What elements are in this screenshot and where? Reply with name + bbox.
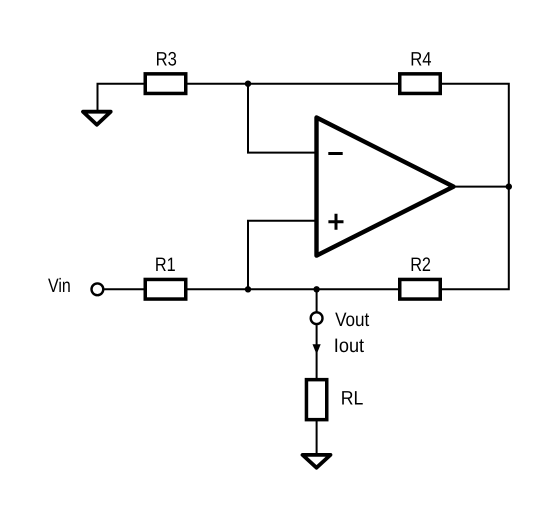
resistor R4 <box>400 74 441 94</box>
op-amp minus symbol <box>328 152 342 155</box>
terminal Vout <box>311 312 323 324</box>
op-amp U1 <box>317 118 454 256</box>
wire RL to bottom ground <box>316 421 318 455</box>
svg-text:R1: R1 <box>155 254 176 276</box>
junction node A (top) <box>245 81 251 87</box>
junction node output <box>506 183 512 189</box>
junction node C (Vout tap) <box>313 286 319 292</box>
wire node C down to Vout terminal <box>316 289 318 311</box>
wire R1 to R2 <box>187 288 400 290</box>
wire R3 to R4 <box>187 83 400 85</box>
resistor R3 <box>145 74 186 94</box>
wire Vout terminal to RL <box>316 325 318 378</box>
wire non-inverting input <box>248 221 315 290</box>
terminal Vin <box>92 283 104 295</box>
resistor R1 <box>145 279 186 299</box>
svg-text:R4: R4 <box>410 48 431 70</box>
ground GND1 (top-left) <box>83 112 111 125</box>
junction node B (non-inverting tap) <box>245 286 251 292</box>
Iout current arrow <box>313 344 321 354</box>
svg-text:R2: R2 <box>410 254 431 276</box>
wire inverting input <box>248 84 315 153</box>
wire Vin to R1 <box>104 288 144 290</box>
op-amp plus symbol <box>328 214 343 230</box>
wire R4 to right rail down to R2 <box>441 84 509 290</box>
wire from top-left ground up to R3 <box>98 84 145 111</box>
svg-text:Vout: Vout <box>335 309 370 331</box>
resistor RL <box>306 380 326 420</box>
wire op-amp output <box>455 186 509 188</box>
svg-text:Iout: Iout <box>334 335 365 357</box>
svg-text:Vin: Vin <box>48 275 71 297</box>
svg-text:R3: R3 <box>156 49 177 71</box>
svg-text:RL: RL <box>341 387 364 409</box>
resistor R2 <box>400 279 441 299</box>
ground GND2 (bottom) <box>303 455 331 468</box>
